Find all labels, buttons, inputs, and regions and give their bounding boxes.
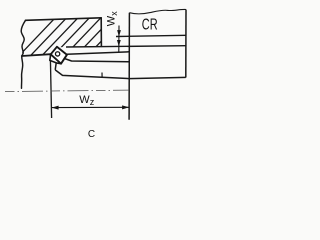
svg-text:C: C xyxy=(88,129,95,140)
svg-text:CR: CR xyxy=(142,17,158,34)
